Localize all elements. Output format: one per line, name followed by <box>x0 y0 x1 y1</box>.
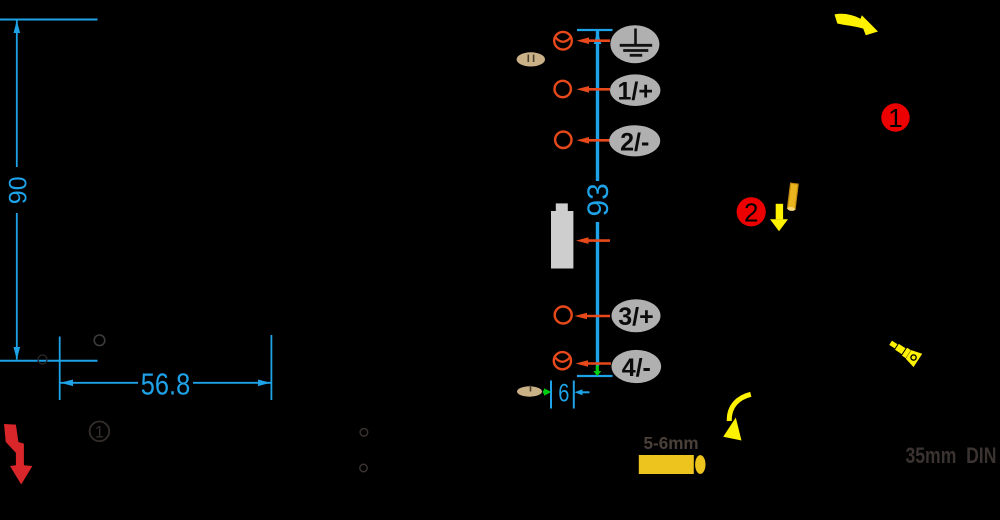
svg-text:5-6mm: 5-6mm <box>644 433 699 454</box>
device screw hole lower <box>360 464 367 471</box>
terminal screw PE <box>554 32 572 50</box>
screwdriver tip top (tan) <box>517 52 545 66</box>
dimension 90 top arrowhead <box>14 21 21 34</box>
dimension 90 vertical line upper segment <box>16 21 18 168</box>
arrow 4 <box>587 362 611 365</box>
terminal screw 4 <box>554 352 571 369</box>
yellow down arrow step2 <box>776 204 783 220</box>
dimension 93 top extension line <box>577 29 613 31</box>
gold ferrule large <box>639 455 694 474</box>
label ellipse 4/- <box>612 350 662 383</box>
svg-text:1/+: 1/+ <box>617 78 652 106</box>
device mounting hole circle faint <box>94 335 105 346</box>
svg-text:6: 6 <box>558 379 569 407</box>
yellow curved arrow bottom right <box>729 394 751 421</box>
dimension 56.8 right arrowhead <box>258 380 271 387</box>
symbol circled 1 footnote <box>90 422 110 442</box>
svg-text:3/+: 3/+ <box>618 303 653 331</box>
dimension 56.8 left arrowhead <box>61 380 74 387</box>
dimension 90 top extension line <box>0 19 98 21</box>
dimension 90 bottom extension line <box>0 360 98 362</box>
svg-text:2/-: 2/- <box>620 128 649 156</box>
dimension 93 bottom extension line <box>577 375 613 377</box>
dimension 90 bottom arrowhead <box>14 347 21 360</box>
label ellipse 1/+ <box>610 74 660 106</box>
dimension 56.8 left extension tick <box>59 337 61 401</box>
dimension 6 left tick <box>550 381 552 409</box>
svg-text:2: 2 <box>744 197 758 227</box>
terminal screw 1 <box>555 81 571 97</box>
svg-text:56.8: 56.8 <box>141 367 190 402</box>
ground symbol <box>634 29 637 46</box>
yellow ferrule being inserted <box>787 183 798 211</box>
svg-text:35mm DIN Rail: 35mm DIN Rail <box>906 444 1000 468</box>
label ellipse 2/- <box>609 125 660 156</box>
green arrow right to dim 6 <box>543 391 545 394</box>
device screw hole upper <box>360 429 368 437</box>
svg-text:1: 1 <box>888 103 902 133</box>
dimension 56.8 right extension tick <box>270 335 272 400</box>
step 2 marker red disc <box>737 197 766 226</box>
dimension 93 vertical line lower segment <box>596 222 599 366</box>
dimension 90 vertical line lower segment <box>16 213 18 360</box>
terminal screw 3 <box>555 307 572 324</box>
arrow 1 <box>588 88 610 91</box>
arrow 2 <box>588 139 610 142</box>
arrow 3 <box>586 315 610 318</box>
DIN clip slider gray <box>556 203 568 212</box>
dimension 6 outside arrow <box>580 391 590 393</box>
arrow to DIN clip <box>587 239 610 242</box>
dimension 6 right tick <box>573 381 575 409</box>
arrow PE <box>588 39 610 42</box>
label ellipse PE ground <box>610 25 659 63</box>
device edge faint circle <box>38 355 47 364</box>
svg-text:4/-: 4/- <box>622 354 651 382</box>
terminal screw 2 <box>555 132 571 148</box>
svg-text:93: 93 <box>582 183 615 216</box>
dimension 56.8 line left segment <box>61 382 139 384</box>
dimension 56.8 line right segment <box>193 382 271 384</box>
dimension 93 top arrowhead <box>594 31 602 44</box>
screwdriver tip bottom (tan) <box>517 386 542 396</box>
hazard lightning bolt <box>4 424 32 485</box>
label ellipse 3/+ <box>612 299 661 332</box>
yellow curved arrow top right <box>835 14 879 35</box>
yellow screwdriver icon bottom right <box>886 336 922 367</box>
green insert arrow down at 93 bottom <box>596 366 599 372</box>
step 1 marker red disc <box>881 103 909 131</box>
svg-text:1: 1 <box>95 423 104 442</box>
svg-text:90: 90 <box>5 176 33 204</box>
dimension 93 vertical line upper segment <box>596 31 599 181</box>
